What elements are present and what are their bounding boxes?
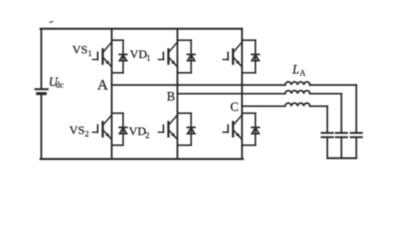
battery Udc (DC source plates) bbox=[35, 89, 47, 93]
svg-text:B: B bbox=[167, 90, 175, 104]
wire phase B output bbox=[177, 93, 285, 95]
label LA bbox=[291, 63, 305, 78]
transistor leg B upper IGBT bbox=[158, 42, 177, 67]
diode VD1 bbox=[119, 40, 127, 73]
transistor VS2 (IGBT) bbox=[93, 115, 112, 139]
transistor VS1 (IGBT) bbox=[93, 42, 112, 67]
svg-text:1: 1 bbox=[146, 53, 150, 63]
svg-text:A: A bbox=[97, 77, 108, 93]
diode leg B lower bbox=[187, 113, 195, 145]
label VD2 bbox=[129, 124, 150, 140]
wire switch-cell loop leg C lower bbox=[242, 113, 255, 145]
svg-text:dc: dc bbox=[56, 80, 64, 90]
wire phase leg C vertical bbox=[241, 29, 243, 159]
wire phase A output bbox=[112, 84, 286, 86]
diode leg C lower bbox=[252, 113, 260, 145]
wire bottom DC bus (negative rail) bbox=[41, 158, 243, 160]
svg-text:VD: VD bbox=[129, 124, 147, 138]
svg-text:L: L bbox=[291, 63, 299, 77]
inductor phase C coil bbox=[285, 103, 310, 106]
inductor LA (phase A coil) bbox=[285, 82, 310, 85]
capacitor phase C bbox=[322, 133, 333, 158]
node B label bbox=[167, 90, 175, 104]
label Udc bbox=[49, 75, 64, 89]
wire phase C to capacitor bbox=[310, 106, 328, 133]
svg-text:1: 1 bbox=[88, 48, 92, 58]
capacitor phase B bbox=[336, 133, 347, 158]
node A label bbox=[97, 77, 108, 93]
svg-text:A: A bbox=[300, 69, 306, 78]
diode leg B upper bbox=[187, 40, 195, 73]
wire switch-cell loop VS1/VD1 bbox=[112, 40, 123, 73]
wire phase leg A vertical bbox=[111, 29, 113, 159]
diode leg C upper bbox=[252, 40, 260, 73]
svg-text:2: 2 bbox=[85, 128, 89, 138]
wire phase C output bbox=[242, 105, 285, 107]
wire top DC bus (positive rail) bbox=[41, 28, 243, 30]
inductor phase B coil bbox=[285, 91, 310, 94]
wire left vertical upper segment bbox=[40, 29, 42, 88]
svg-text:2: 2 bbox=[145, 130, 149, 140]
svg-text:VD: VD bbox=[130, 47, 148, 61]
transistor leg C lower IGBT bbox=[223, 115, 242, 139]
label VD1 bbox=[130, 47, 151, 62]
svg-text:VS: VS bbox=[72, 42, 87, 56]
wire switch-cell loop VS2/VD2 bbox=[112, 113, 123, 145]
wire left vertical lower segment bbox=[40, 94, 42, 159]
label VS2 bbox=[69, 123, 89, 139]
wire switch-cell loop leg C upper bbox=[242, 40, 255, 73]
transistor leg B lower IGBT bbox=[158, 115, 177, 139]
svg-text:C: C bbox=[230, 100, 238, 114]
diode VD2 bbox=[119, 113, 127, 145]
svg-text:VS: VS bbox=[69, 123, 84, 137]
transistor leg C upper IGBT bbox=[223, 42, 242, 67]
node C label bbox=[230, 100, 238, 114]
label VS1 bbox=[72, 42, 92, 57]
wire phase B to capacitor bbox=[310, 94, 342, 133]
wire switch-cell loop leg B lower bbox=[177, 113, 191, 145]
wire capacitor common tie bbox=[327, 157, 356, 159]
wire switch-cell loop leg B upper bbox=[177, 40, 191, 73]
capacitor phase A bbox=[351, 133, 362, 158]
wire phase A to capacitor bbox=[310, 85, 357, 133]
wire phase leg B vertical bbox=[176, 29, 178, 159]
